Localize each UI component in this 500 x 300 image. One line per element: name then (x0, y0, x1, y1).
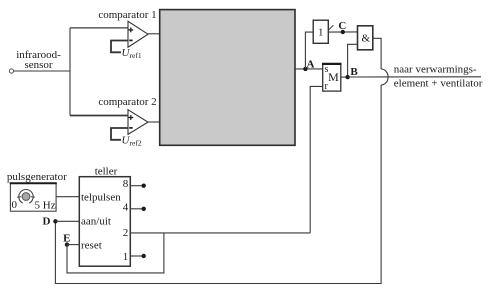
svg-text:naar verwarmings-: naar verwarmings- (394, 63, 477, 75)
pulse generator knob (22, 193, 30, 201)
input terminal infrarood-sensor (9, 69, 13, 73)
svg-text:A: A (307, 58, 315, 70)
svg-text:telpulsen: telpulsen (81, 191, 121, 203)
output 1 terminal dot (142, 254, 146, 258)
output 4 stub (130, 208, 143, 210)
pulse generator box (10, 183, 56, 211)
counter (teller) box (79, 177, 130, 267)
memory element M (323, 64, 341, 91)
svg-text:aan/uit: aan/uit (81, 215, 111, 227)
wire AND output (373, 38, 381, 69)
wire node E down and to counter output 2 line (67, 233, 164, 273)
output 8 stub (130, 185, 143, 187)
svg-text:comparator 1: comparator 1 (98, 9, 156, 21)
node D junction (53, 219, 57, 223)
wire comparator 2 output (148, 121, 160, 123)
inverter output inversion slash (328, 25, 333, 30)
wire hop over B line (381, 69, 388, 85)
svg-text:B: B (350, 66, 358, 78)
wire node B up to AND second input (348, 44, 358, 77)
svg-text:&: & (362, 33, 371, 45)
svg-text:2: 2 (123, 227, 129, 239)
svg-text:8: 8 (123, 178, 129, 190)
wire node D to aan/uit input (55, 220, 79, 222)
svg-text:reset: reset (81, 239, 102, 251)
wire to comparator 1 plus input (70, 27, 128, 29)
wire M output to node B (341, 76, 348, 78)
wire A up to inverter input (305, 32, 313, 69)
svg-text:D: D (43, 215, 51, 227)
svg-text:element + ventilator: element + ventilator (394, 77, 483, 89)
wire to comparator 2 plus input (70, 115, 128, 117)
comparator 1 op-amp (128, 21, 148, 47)
dial tick left (17, 196, 21, 199)
wire inverter output to AND input (node C) (328, 31, 357, 33)
wire Uref2 to comparator 2 minus input (111, 128, 128, 140)
inverter block "1" (313, 20, 328, 43)
svg-text:0: 0 (12, 199, 18, 211)
wire gray box output to M s input (node A) (295, 68, 323, 70)
svg-text:pulsgenerator: pulsgenerator (7, 171, 67, 183)
processing block (gray box) (160, 10, 295, 146)
svg-text:teller: teller (95, 165, 118, 177)
wire M r input from counter output 2 (310, 86, 323, 233)
AND gate "&" (358, 26, 373, 50)
node C junction (341, 30, 345, 34)
node B junction (345, 75, 349, 79)
wire AND output down and along bottom to node D (55, 85, 381, 284)
svg-text:1: 1 (318, 26, 324, 38)
wire counter output 2 (130, 232, 310, 234)
svg-text:5 Hz: 5 Hz (35, 199, 56, 211)
wire node E to reset input (67, 244, 79, 246)
dial tick right (31, 196, 35, 199)
wire node B to output (naar verwarmingselement) (348, 76, 481, 78)
pulse generator dial arc (19, 190, 33, 204)
svg-text:1: 1 (123, 251, 129, 263)
memory element M top edge (thick) (322, 63, 342, 65)
svg-text:4: 4 (123, 202, 129, 214)
output 1 stub (130, 255, 143, 257)
svg-text:ref1: ref1 (130, 51, 142, 60)
output 8 terminal dot (142, 184, 146, 188)
node E junction (65, 242, 69, 246)
wire sensor to splitter node (14, 70, 70, 72)
comparator 2 op-amp (128, 110, 148, 135)
wire Uref1 to comparator 1 minus input (111, 41, 128, 53)
wire pulsgenerator to teller telpulsen input (56, 196, 79, 198)
wire splitter vertical (69, 28, 71, 116)
node A junction (303, 67, 307, 71)
svg-text:C: C (338, 20, 346, 32)
svg-text:M: M (328, 70, 339, 84)
output 4 terminal dot (142, 207, 146, 211)
svg-text:ref2: ref2 (130, 139, 142, 148)
svg-text:comparator 2: comparator 2 (98, 96, 156, 108)
wire comparator 1 output (148, 33, 160, 35)
svg-text:sensor: sensor (24, 59, 52, 71)
pulse generator box top edge (thick) (10, 182, 57, 184)
